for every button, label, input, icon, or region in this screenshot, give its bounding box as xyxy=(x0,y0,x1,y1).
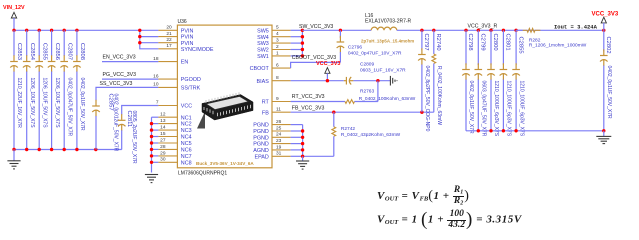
wire GND bottom rail right xyxy=(466,130,604,132)
svg-text:VCC_3V3: VCC_3V3 xyxy=(316,61,340,67)
svg-text:NC3: NC3 xyxy=(181,128,192,134)
svg-text:CBOOT: CBOOT xyxy=(250,66,270,72)
svg-text:0402_0p1UF_50V_X7R: 0402_0p1UF_50V_X7R xyxy=(606,66,612,119)
svg-text:Iout = 3.424A: Iout = 3.424A xyxy=(554,23,598,30)
svg-text:1206_10UF_50V_X7S: 1206_10UF_50V_X7S xyxy=(54,78,60,129)
ground (PGND bus) xyxy=(296,156,309,169)
U36 right pin stubs xyxy=(272,30,291,156)
svg-text:VIN_12V: VIN_12V xyxy=(3,5,25,11)
svg-text:1206_10UF_50V_X7S: 1206_10UF_50V_X7S xyxy=(29,78,35,129)
wire CBOOT xyxy=(291,62,341,68)
wire VCC pin7 xyxy=(122,106,159,115)
svg-text:R2742: R2742 xyxy=(341,126,355,132)
svg-text:PVIN: PVIN xyxy=(181,28,194,34)
svg-text:AGND: AGND xyxy=(253,148,269,154)
ground (NC bus) xyxy=(145,175,158,183)
svg-text:1210_100UF_6p3V_X7S: 1210_100UF_6p3V_X7S xyxy=(518,81,524,137)
wire FB xyxy=(291,111,434,113)
svg-text:24: 24 xyxy=(276,132,282,138)
wire SS/TRK xyxy=(96,87,158,100)
wire BIAS xyxy=(291,80,344,82)
wire pin20 xyxy=(140,29,159,31)
svg-text:22: 22 xyxy=(166,37,172,43)
svg-text:25: 25 xyxy=(276,125,282,131)
svg-text:C2801: C2801 xyxy=(505,34,511,51)
junction dots SW bus xyxy=(301,29,304,58)
capacitor C2855b xyxy=(512,30,524,136)
svg-text:EXLA1V0703-2R7-R: EXLA1V0703-2R7-R xyxy=(365,19,412,25)
svg-text:30: 30 xyxy=(160,157,166,163)
ground (BIAS, sideways) xyxy=(390,76,397,86)
svg-text:U36: U36 xyxy=(178,19,187,25)
U36 right pin names xyxy=(250,28,270,160)
inductor L16 xyxy=(371,27,397,30)
svg-text:EPAD: EPAD xyxy=(255,154,269,160)
svg-text:FB_VCC_3V3: FB_VCC_3V3 xyxy=(292,105,325,111)
wire BIAS to ground xyxy=(353,80,390,82)
svg-text:R_0402_100Kohm_63mW: R_0402_100Kohm_63mW xyxy=(436,66,442,125)
junction dots VCC rail xyxy=(339,29,606,32)
svg-text:PVIN: PVIN xyxy=(181,35,194,41)
svg-text:3: 3 xyxy=(276,38,279,44)
svg-text:18: 18 xyxy=(153,56,159,62)
capacitor C2802 xyxy=(600,30,612,131)
svg-text:PGND: PGND xyxy=(253,129,269,135)
svg-text:PGND: PGND xyxy=(253,135,269,141)
wire RT to BIAS junction xyxy=(355,101,378,103)
power symbol VIN_12V xyxy=(11,12,16,18)
svg-text:0805_2p2UF_50V_X7R: 0805_2p2UF_50V_X7R xyxy=(131,111,137,164)
svg-text:C2856: C2856 xyxy=(54,43,60,60)
wires PGND pins xyxy=(291,125,303,157)
svg-text:RT_VCC_3V3: RT_VCC_3V3 xyxy=(292,94,325,100)
svg-text:9: 9 xyxy=(276,96,279,102)
svg-text:C2854: C2854 xyxy=(29,43,35,61)
svg-text:NC5: NC5 xyxy=(181,141,192,147)
formula Vout = 1(1+100/43.2) = 3.315V xyxy=(377,209,522,231)
capacitor C2799 xyxy=(475,30,487,136)
wire VCC_3V3_R rail xyxy=(397,29,604,31)
resistor R2763 xyxy=(345,89,416,104)
junction dots NC bus xyxy=(150,122,153,164)
wire VIN vertical xyxy=(13,18,15,30)
svg-text:SW2: SW2 xyxy=(257,48,269,54)
junction dots on VIN rail xyxy=(12,29,141,45)
capacitor C2811 xyxy=(118,111,137,164)
svg-text:C2855: C2855 xyxy=(517,37,523,54)
svg-text:NC7: NC7 xyxy=(181,154,192,160)
junction dots bottom rail xyxy=(12,148,97,151)
svg-text:NC2: NC2 xyxy=(181,122,192,128)
svg-text:17: 17 xyxy=(166,43,172,49)
svg-text:SW1: SW1 xyxy=(257,54,269,60)
svg-text:16: 16 xyxy=(153,73,159,79)
wire pin21 xyxy=(140,36,159,38)
svg-text:14: 14 xyxy=(160,125,166,131)
svg-text:C2855: C2855 xyxy=(41,43,47,60)
svg-text:SW_VCC_3V3: SW_VCC_3V3 xyxy=(299,24,333,30)
svg-text:SW4: SW4 xyxy=(257,35,269,41)
svg-text:SS_VCC_3V3: SS_VCC_3V3 xyxy=(100,81,133,87)
svg-text:0402_8p2PF_50V_COG-NP0: 0402_8p2PF_50V_COG-NP0 xyxy=(424,66,430,132)
resistor R282 (shunt) xyxy=(516,28,587,48)
svg-text:0402_0p1UF_50V_X7R: 0402_0p1UF_50V_X7R xyxy=(79,78,85,131)
ground (input bank) xyxy=(7,150,20,169)
op-amp U36 body box xyxy=(177,25,272,168)
capacitor C2854 xyxy=(23,30,35,149)
wires NC pins xyxy=(152,117,159,162)
svg-text:26: 26 xyxy=(276,119,282,125)
svg-text:0402_0p012uF_50V_X7R: 0402_0p012uF_50V_X7R xyxy=(113,94,119,152)
svg-text:4: 4 xyxy=(276,31,279,37)
U36 right pin numbers xyxy=(276,25,282,157)
svg-text:8: 8 xyxy=(276,75,279,81)
capacitor C2809 (BIAS) xyxy=(344,62,406,85)
svg-text:R2763: R2763 xyxy=(360,89,374,95)
junction dots PGND bus xyxy=(301,129,304,158)
svg-text:SS/TRK: SS/TRK xyxy=(181,86,201,92)
svg-text:SYNC/MODE: SYNC/MODE xyxy=(181,47,214,53)
capacitor C2857 xyxy=(92,94,119,152)
formula Vout = Vfb(1+R1/R2) xyxy=(377,186,469,207)
wire RT xyxy=(291,101,345,103)
capacitor C2807 xyxy=(60,30,72,149)
svg-text:0603_1UF_16V_X7R: 0603_1UF_16V_X7R xyxy=(360,68,406,74)
svg-text:1206_10UF_50V_X7S: 1206_10UF_50V_X7S xyxy=(41,78,47,129)
svg-text:VCC: VCC xyxy=(181,104,192,110)
svg-text:C2799: C2799 xyxy=(480,34,486,51)
capacitor C2797 (feedforward) xyxy=(418,30,430,131)
wire SW bus xyxy=(301,30,303,56)
wires SW pins xyxy=(291,30,303,56)
svg-text:LM73606QURNPRQ1: LM73606QURNPRQ1 xyxy=(178,170,227,176)
wire EN xyxy=(102,61,158,63)
svg-text:6: 6 xyxy=(276,63,279,69)
wire SW to inductor xyxy=(302,29,371,31)
U36 left pin numbers xyxy=(153,25,172,163)
wire PGND bus xyxy=(302,125,304,157)
svg-text:FB: FB xyxy=(262,110,269,116)
svg-text:C2797: C2797 xyxy=(423,34,429,51)
svg-text:10: 10 xyxy=(153,82,159,88)
capacitor C2855 xyxy=(35,30,47,149)
svg-text:R_0402_43p2Kohm_63mW: R_0402_43p2Kohm_63mW xyxy=(341,132,401,138)
svg-text:1210_22UF_16V_X7R: 1210_22UF_16V_X7R xyxy=(16,78,22,129)
svg-text:0402_0p1UF_50V_X7R: 0402_0p1UF_50V_X7R xyxy=(468,81,474,134)
capacitor C2798 xyxy=(462,30,474,134)
svg-text:PGOOD: PGOOD xyxy=(181,77,201,83)
U36 left pin names xyxy=(181,28,214,166)
wire PGOOD xyxy=(102,78,158,80)
svg-text:NC4: NC4 xyxy=(181,135,192,141)
svg-text:SW3: SW3 xyxy=(257,41,269,47)
svg-text:28: 28 xyxy=(160,144,166,150)
wire NC bus xyxy=(151,117,153,172)
svg-text:EN_VCC_3V3: EN_VCC_3V3 xyxy=(103,54,136,60)
svg-text:1: 1 xyxy=(276,50,279,56)
svg-text:C2808: C2808 xyxy=(79,43,85,60)
svg-text:BIAS: BIAS xyxy=(257,79,270,85)
junction dots BIAS xyxy=(326,79,380,82)
svg-text:R_1206_1mohm_1000mW: R_1206_1mohm_1000mW xyxy=(529,42,587,48)
svg-text:C2800: C2800 xyxy=(492,34,498,51)
resistor R2742 xyxy=(332,112,401,156)
svg-text:11: 11 xyxy=(276,107,281,113)
svg-text:0603_0p47UF_50V_X7R: 0603_0p47UF_50V_X7R xyxy=(481,81,487,137)
svg-text:0402_0p047UF_50V_X7R: 0402_0p047UF_50V_X7R xyxy=(66,78,72,137)
capacitor C2808 xyxy=(73,30,85,149)
U36 left pin stubs xyxy=(158,30,177,162)
svg-text:NC6: NC6 xyxy=(181,148,192,154)
svg-text:C2798: C2798 xyxy=(467,34,473,51)
svg-text:PG_VCC_3V3: PG_VCC_3V3 xyxy=(103,72,137,78)
svg-text:21: 21 xyxy=(166,31,172,37)
ground (output rail) xyxy=(596,131,611,144)
junction dots bottom rail right xyxy=(477,129,606,132)
svg-text:15: 15 xyxy=(160,131,166,137)
svg-text:Buck_3V5-36V_1V-34V_6A: Buck_3V5-36V_1V-34V_6A xyxy=(196,161,254,166)
capacitor C2856 xyxy=(48,30,60,149)
svg-text:NC1: NC1 xyxy=(181,115,192,121)
wire BIAS to RT xyxy=(377,81,379,102)
wire pin22 xyxy=(140,42,159,44)
capacitor C2796 (CBOOT) xyxy=(337,30,402,62)
wire GND bottom rail left xyxy=(14,149,122,151)
svg-text:SW5: SW5 xyxy=(257,28,269,34)
wire VIN top rail xyxy=(14,29,140,31)
svg-text:C2796: C2796 xyxy=(348,45,362,51)
svg-text:PGND: PGND xyxy=(253,123,269,129)
U36 package picture xyxy=(197,92,253,128)
svg-text:0402_0p47UF_10V_X7R: 0402_0p47UF_10V_X7R xyxy=(348,51,402,57)
svg-text:PVIN: PVIN xyxy=(181,41,194,47)
svg-text:R2740: R2740 xyxy=(435,34,441,51)
junction dots FB xyxy=(332,111,424,114)
svg-text:2: 2 xyxy=(276,44,279,50)
svg-text:RT: RT xyxy=(262,100,270,106)
svg-text:1210_100UF_6p3V_X7S: 1210_100UF_6p3V_X7S xyxy=(493,81,499,137)
capacitor C2853 xyxy=(10,30,22,149)
svg-text:PGND: PGND xyxy=(253,142,269,148)
svg-text:C2853: C2853 xyxy=(16,43,22,60)
svg-text:20: 20 xyxy=(166,25,172,31)
svg-text:2p7uH_13p5A_15.4mohm: 2p7uH_13p5A_15.4mohm xyxy=(361,39,414,44)
wire EPAD/R2742 bottom xyxy=(303,155,334,157)
resistor R2740 (divider top) xyxy=(432,30,442,125)
svg-text:EN: EN xyxy=(181,60,189,66)
svg-text:12: 12 xyxy=(160,112,166,118)
svg-text:23: 23 xyxy=(276,138,282,144)
svg-text:C2809: C2809 xyxy=(360,62,374,68)
svg-text:13: 13 xyxy=(160,118,166,124)
svg-text:VCC_3V3_R: VCC_3V3_R xyxy=(468,24,498,30)
svg-text:5: 5 xyxy=(276,25,279,31)
wire PVIN bus vertical xyxy=(140,30,159,49)
svg-text:27: 27 xyxy=(160,137,166,143)
svg-text:NC8: NC8 xyxy=(181,160,192,166)
svg-text:C2807: C2807 xyxy=(66,43,72,60)
capacitor C2800 xyxy=(487,30,499,136)
capacitor C2801 xyxy=(500,30,512,136)
svg-text:7: 7 xyxy=(156,100,159,106)
svg-text:19: 19 xyxy=(276,144,282,150)
svg-text:1210_100UF_6p3V_X7S: 1210_100UF_6p3V_X7S xyxy=(506,81,512,137)
svg-text:C2802: C2802 xyxy=(605,37,611,54)
svg-text:VCC_3V3: VCC_3V3 xyxy=(592,11,619,17)
svg-text:31: 31 xyxy=(276,151,282,157)
svg-text:29: 29 xyxy=(160,150,166,156)
